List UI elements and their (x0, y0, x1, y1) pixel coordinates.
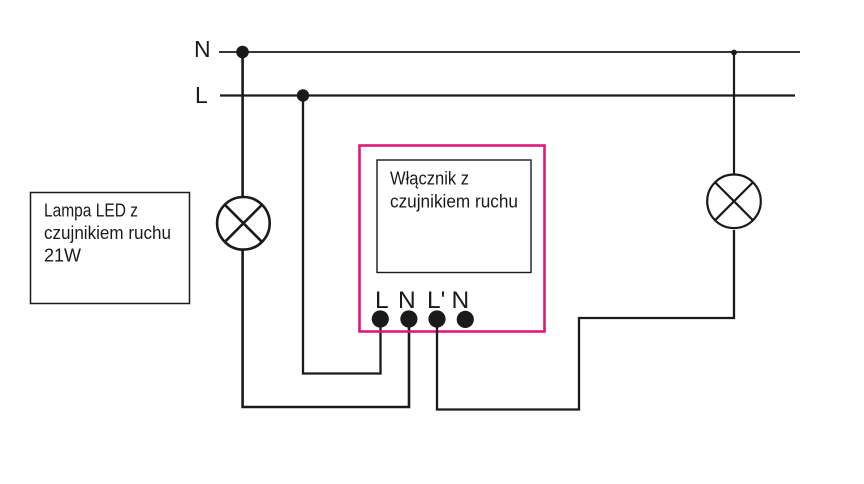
svg-text:Lampa LED z: Lampa LED z (44, 201, 138, 221)
svg-text:21W: 21W (44, 246, 81, 266)
svg-text:L: L (375, 287, 389, 314)
switch module box (pink) (360, 146, 545, 332)
terminal L dot (372, 310, 389, 327)
svg-text:czujnikiem ruchu: czujnikiem ruchu (390, 192, 518, 212)
lamp E2 (right, circle with X) (707, 175, 761, 229)
wire from L junction to switch terminal L (303, 96, 381, 374)
annotation text Lampa LED z czujnikiem ruchu 21W (44, 201, 171, 266)
switch label box (377, 160, 531, 273)
svg-text:N: N (194, 36, 211, 62)
terminal L' dot (428, 310, 445, 327)
terminal N dot (400, 310, 417, 327)
node junction on L bus (297, 89, 309, 101)
wire N bus (219, 51, 800, 53)
node junction on N bus (right) (731, 50, 737, 56)
terminal N dot (unused) (457, 311, 474, 328)
wire from N junction down to left lamp (241, 52, 244, 197)
svg-text:N: N (452, 287, 470, 314)
lamp E1 (left, circle with X) (217, 197, 270, 250)
switch label text Włącznik z czujnikiem ruchu (390, 169, 518, 212)
svg-text:L: L (195, 82, 208, 108)
svg-text:L': L' (427, 287, 445, 314)
svg-text:Włącznik z: Włącznik z (390, 169, 469, 189)
wire L bus (220, 94, 795, 96)
wire from left lamp bottom to switch terminal N (243, 250, 409, 407)
wire from terminal L' to right lamp (437, 230, 734, 410)
annotation box: Lampa LED (31, 193, 190, 304)
svg-text:czujnikiem ruchu: czujnikiem ruchu (44, 223, 171, 243)
svg-text:N: N (398, 287, 416, 314)
wire from right N junction down to right lamp (733, 52, 735, 175)
node junction on N bus (left) (236, 46, 249, 59)
